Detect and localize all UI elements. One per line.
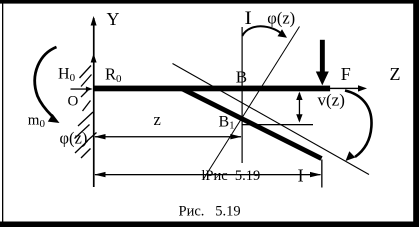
svg-text:I: I [245,8,252,29]
z dim right arrowhead [230,134,241,139]
svg-text:O: O [68,94,79,110]
tangent line at B1 (steep thin line) [204,27,300,180]
v(z) bottom arrowhead [296,114,302,122]
H0 arrowhead [86,87,93,92]
reaction R0 arrowhead [91,54,97,63]
frame left line [2,0,3,227]
svg-text:φ(z): φ(z) [60,129,88,148]
section line I-I [242,27,243,163]
deflected beam (thick diagonal) [181,88,322,158]
Y axis arrowhead [91,16,97,26]
phi(z) rotation arc at section [242,26,283,36]
svg-text:lРис 5.19: lРис 5.19 [201,168,260,184]
l dim left arrowhead [94,172,105,177]
curved arrow on the right [345,91,372,158]
z dimension line [95,136,241,137]
svg-text:v(z): v(z) [318,90,345,109]
phi arc arrowhead [278,29,288,38]
v(z) dimension arrow shaft [299,93,300,121]
svg-text:Рис. 5.19: Рис. 5.19 [179,204,241,220]
frame right bar [413,0,419,227]
v(z) top arrowhead [296,92,302,100]
Z axis arrowhead [358,85,367,91]
svg-text:z: z [154,110,161,129]
svg-text:I: I [298,165,304,185]
wall / Y-axis line [93,18,95,187]
frame top bar [0,0,419,4]
beam (undeformed axis, thick) [94,86,331,92]
svg-text:φ(z): φ(z) [267,8,295,27]
l dimension line [95,174,321,175]
horizontal reference line at B1 [242,124,313,125]
auxiliary thin diagonal line [173,64,370,175]
svg-text:F: F [341,64,351,84]
svg-text:B: B [236,67,247,86]
z dim left arrowhead [94,134,105,139]
force F arrowhead [316,72,329,86]
right extension line [321,160,322,188]
force F arrow shaft [320,40,325,73]
Z axis line [330,88,361,89]
l dim right arrowhead [310,172,321,177]
svg-text:Y: Y [107,9,120,29]
svg-text:Z: Z [390,64,401,84]
m0 arc arrowhead [48,114,60,123]
wall hatching [75,66,97,159]
right arc arrowhead [346,151,356,161]
frame bottom bar [0,222,419,228]
m0 moment arc [35,47,57,116]
H0 force arrow [71,88,88,89]
